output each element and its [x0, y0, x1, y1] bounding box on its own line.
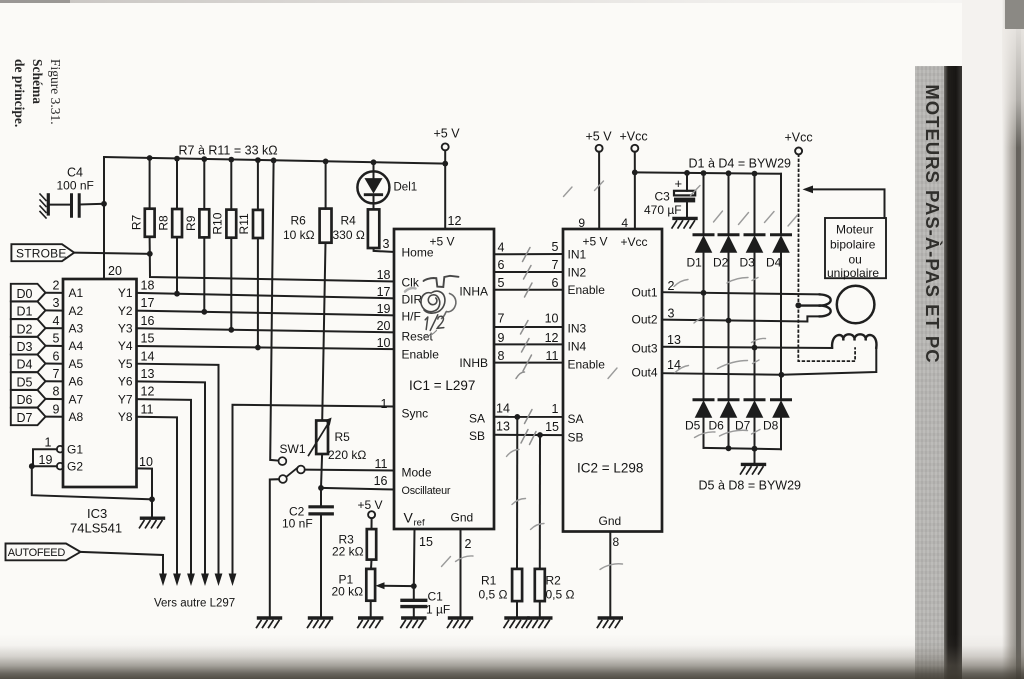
wire Out1	[662, 279, 820, 294]
pencil marks near diodes and outputs	[442, 181, 798, 570]
svg-text:17: 17	[141, 296, 155, 310]
wire bus to ground	[754, 449, 756, 465]
diode D8	[763, 400, 791, 449]
svg-text:R4: R4	[341, 214, 357, 228]
svg-text:Moteur: Moteur	[836, 223, 873, 237]
node junction G1/G2	[29, 463, 35, 469]
wire IC1 pin6 to IC2 IN2	[494, 258, 563, 272]
svg-text:ou: ou	[849, 253, 862, 267]
wire wiper to P1 with arrow	[376, 582, 414, 589]
svg-text:19: 19	[377, 302, 391, 316]
band title text	[916, 66, 946, 679]
capacitor C1	[402, 586, 450, 618]
IC3 left pin numbers 2-9	[53, 279, 60, 417]
svg-text:R7 à R11 = 33 kΩ: R7 à R11 = 33 kΩ	[179, 144, 278, 158]
svg-text:7: 7	[53, 367, 60, 381]
node D6 flag	[11, 390, 63, 408]
wire IC1 pin9 to IC2 IN4	[494, 331, 563, 345]
svg-text:11: 11	[546, 349, 559, 363]
node junction R8/Y1	[174, 291, 180, 297]
node D7 flag	[11, 408, 63, 426]
wire Out2	[662, 307, 820, 322]
svg-text:4: 4	[498, 241, 505, 255]
wire Vref to C1 node	[413, 529, 416, 586]
svg-text:G1: G1	[67, 443, 83, 457]
svg-text:INHA: INHA	[459, 284, 488, 298]
svg-text:D6: D6	[17, 393, 33, 407]
svg-text:+: +	[675, 176, 683, 191]
IC1 right pin texts INHA INHB SA SB	[459, 284, 488, 443]
svg-text:14: 14	[496, 402, 510, 416]
diode D1	[687, 173, 714, 399]
svg-text:R10: R10	[210, 212, 224, 234]
svg-text:A4: A4	[69, 339, 84, 353]
svg-text:19: 19	[39, 453, 53, 467]
svg-text:20: 20	[377, 319, 391, 333]
svg-text:A7: A7	[69, 392, 84, 406]
svg-text:2: 2	[465, 537, 472, 551]
IC2 left pin texts	[568, 247, 606, 444]
svg-text:10: 10	[545, 312, 559, 326]
resistor R9	[184, 159, 209, 312]
svg-text:A6: A6	[69, 375, 84, 389]
svg-text:Y2: Y2	[118, 304, 133, 318]
node junction R10/Y3	[228, 327, 234, 333]
svg-text:SA: SA	[469, 411, 485, 425]
svg-text:Mode: Mode	[402, 466, 432, 480]
ground IC3	[140, 518, 164, 528]
wire +5V to SW1	[270, 160, 278, 460]
wire R5 to oscillator node	[321, 454, 322, 488]
svg-text:D8: D8	[763, 419, 779, 433]
svg-text:Y8: Y8	[118, 410, 133, 424]
node junction R11/Y4	[255, 345, 261, 351]
node junction R5/C2/Osc	[318, 485, 324, 491]
potentiometer P1	[332, 560, 376, 618]
IC3 pin texts A1-A8	[69, 286, 84, 424]
svg-text:Oscillateur: Oscillateur	[402, 485, 451, 497]
ground C2	[308, 618, 332, 628]
ground C4	[40, 194, 48, 218]
svg-text:ref: ref	[414, 518, 425, 529]
motor M circle	[837, 286, 875, 324]
svg-text:8: 8	[498, 349, 505, 363]
svg-text:R7: R7	[129, 215, 143, 231]
bottom scan shadow gradient	[0, 634, 1024, 679]
figure caption (rotated serif text)	[0, 61, 76, 191]
node STROBE flag	[11, 244, 74, 261]
svg-text:D5 à D8 = BYW29: D5 à D8 = BYW29	[699, 479, 802, 493]
svg-text:Enable: Enable	[402, 347, 440, 361]
black binding stripe	[944, 66, 962, 679]
svg-text:D3: D3	[740, 256, 756, 270]
resistor R3	[332, 518, 376, 559]
svg-text:Y1: Y1	[118, 286, 133, 300]
transistor-bridge IC2 L298 box	[563, 229, 662, 532]
svg-text:6: 6	[53, 349, 60, 363]
svg-text:Y7: Y7	[118, 392, 133, 406]
IC1 left pin texts	[402, 246, 451, 498]
svg-text:220 kΩ: 220 kΩ	[328, 448, 366, 462]
svg-text:D4: D4	[17, 358, 33, 372]
switch SW1	[279, 442, 306, 483]
svg-text:9: 9	[498, 331, 505, 345]
node junction Vref/C1/P1	[411, 583, 417, 589]
svg-text:Out2: Out2	[631, 313, 657, 327]
arrows Vers autre L297	[154, 574, 236, 610]
wire Y4 to Enable	[137, 346, 395, 349]
svg-text:Del1: Del1	[394, 182, 418, 194]
svg-text:470 µF: 470 µF	[644, 203, 682, 217]
svg-text:18: 18	[141, 279, 155, 293]
svg-text:bipolaire: bipolaire	[830, 238, 876, 252]
svg-text:R9: R9	[184, 215, 198, 231]
inductor coil phase A	[801, 294, 831, 316]
inductor coil phase B	[832, 334, 876, 347]
svg-text:C1: C1	[428, 590, 444, 604]
svg-text:0,5 Ω: 0,5 Ω	[479, 588, 508, 602]
svg-text:3: 3	[383, 237, 390, 251]
svg-text:+5 V: +5 V	[434, 127, 461, 141]
svg-text:H/F: H/F	[402, 309, 421, 323]
node AUTOFEED flag	[6, 544, 81, 561]
node D5 flag	[11, 372, 63, 390]
svg-text:14: 14	[141, 349, 155, 363]
svg-text:6: 6	[498, 258, 505, 272]
svg-text:D2: D2	[713, 256, 729, 270]
svg-text:13: 13	[496, 419, 510, 433]
arrow box to +Vcc line	[803, 186, 885, 219]
svg-text:IN2: IN2	[568, 265, 587, 279]
svg-text:Gnd: Gnd	[451, 511, 474, 525]
svg-text:V: V	[404, 510, 414, 526]
resistor R11	[237, 160, 263, 347]
node C4 junction	[101, 201, 107, 207]
IC2 top pin texts	[578, 216, 647, 549]
pin G1 bubble	[45, 436, 84, 457]
node +Vcc terminal motor	[785, 131, 813, 155]
IC1 left pin numbers	[374, 237, 391, 488]
svg-text:1: 1	[552, 402, 559, 416]
wire G1 G2 tie	[32, 449, 152, 499]
wire Y8 down	[137, 417, 178, 575]
wire Y1 to DIR	[137, 293, 395, 298]
svg-text:Enable: Enable	[568, 283, 606, 297]
node junction rail/D2	[726, 170, 732, 176]
right page edge	[962, 0, 1024, 679]
svg-text:16: 16	[141, 314, 155, 328]
ground R1	[504, 618, 528, 628]
node junction Out4/D4	[779, 372, 785, 378]
wire INHA to IC2 Enable	[494, 276, 563, 290]
svg-text:D5: D5	[685, 419, 701, 433]
ground IC2	[597, 618, 621, 628]
IC3 pin texts Y1-Y8	[118, 286, 133, 424]
svg-text:INHB: INHB	[459, 356, 488, 370]
ground SW1	[257, 618, 281, 628]
wire +Vcc diode rail	[635, 172, 781, 173]
svg-text:+5 V: +5 V	[586, 130, 613, 144]
wire SA	[494, 402, 563, 417]
label R7 à R11 value	[179, 144, 278, 158]
svg-text:18: 18	[377, 268, 391, 282]
wire STROBE to R7 junction	[74, 253, 150, 254]
svg-text:10: 10	[139, 455, 153, 469]
wire Sync down	[233, 405, 395, 575]
svg-text:7: 7	[498, 312, 505, 326]
svg-text:SW1: SW1	[280, 442, 306, 456]
resistor R8	[157, 159, 183, 294]
svg-text:11: 11	[141, 402, 154, 416]
svg-text:9: 9	[53, 402, 60, 416]
svg-text:2: 2	[668, 279, 675, 293]
svg-text:6: 6	[552, 276, 559, 290]
svg-text:8: 8	[53, 385, 60, 399]
svg-text:10 nF: 10 nF	[282, 517, 313, 531]
svg-text:Y5: Y5	[118, 357, 133, 371]
wire Out4	[662, 348, 876, 375]
svg-text:A3: A3	[69, 322, 84, 336]
svg-text:9: 9	[578, 216, 585, 230]
svg-text:10: 10	[377, 336, 391, 350]
node junction SA/R1	[514, 414, 520, 420]
svg-text:12: 12	[141, 385, 155, 399]
ground R2	[527, 618, 551, 628]
svg-text:10 kΩ: 10 kΩ	[283, 228, 315, 242]
svg-text:DIR: DIR	[402, 292, 423, 306]
svg-text:5: 5	[498, 276, 505, 290]
node D0 flag	[11, 284, 63, 302]
svg-text:IN3: IN3	[568, 322, 587, 336]
svg-text:D3: D3	[17, 340, 33, 354]
svg-text:17: 17	[377, 285, 391, 299]
svg-text:D5: D5	[17, 375, 33, 389]
wire Mode	[305, 469, 394, 472]
svg-text:Out4: Out4	[631, 366, 657, 380]
svg-text:+5 V: +5 V	[358, 498, 383, 512]
diode D2	[713, 173, 738, 398]
node junction bus D7	[752, 446, 758, 452]
svg-text:13: 13	[667, 333, 681, 347]
svg-text:A2: A2	[69, 304, 84, 318]
wire INHB to IC2 Enable	[494, 349, 563, 363]
wire junction down to Clk run	[150, 254, 394, 282]
node junction pin10/G	[149, 496, 155, 502]
wire Out3	[662, 333, 832, 348]
diode D7	[735, 400, 764, 449]
wire IC3 pin 10 to ground	[137, 455, 153, 518]
svg-text:8: 8	[613, 535, 620, 549]
svg-text:Gnd: Gnd	[599, 514, 622, 528]
svg-text:5: 5	[552, 240, 559, 254]
node junction rail/D3	[752, 171, 758, 177]
svg-text:+Vcc: +Vcc	[785, 131, 813, 145]
node junction C3	[684, 170, 690, 176]
node junction +Vcc rail	[632, 170, 638, 176]
svg-text:Out3: Out3	[631, 341, 657, 355]
wire IC1 pin4 to IC2 IN1	[494, 240, 563, 255]
svg-text:G2: G2	[67, 460, 83, 474]
svg-text:R6: R6	[291, 214, 307, 228]
svg-text:Home: Home	[402, 246, 434, 260]
svg-text:4: 4	[53, 314, 60, 328]
svg-text:0,5 Ω: 0,5 Ω	[546, 588, 575, 602]
wire Oscillateur	[321, 488, 394, 490]
wire Y6 down	[137, 381, 206, 575]
svg-text:3: 3	[53, 296, 60, 310]
ground IC1	[448, 618, 472, 628]
node junction STROBE/R7	[147, 251, 153, 257]
svg-text:11: 11	[375, 457, 388, 471]
wire IC2 Gnd pin 8	[609, 532, 611, 619]
svg-text:1: 1	[381, 397, 388, 411]
svg-text:A8: A8	[69, 410, 84, 424]
resistor R2	[535, 435, 575, 618]
svg-text:IC1 = L297: IC1 = L297	[409, 378, 475, 393]
IC2 right pin texts Out1-Out4	[631, 286, 657, 380]
wire +5V to IC2 pin 9	[598, 152, 600, 229]
resistor R10	[210, 160, 236, 330]
svg-text:SB: SB	[568, 430, 584, 444]
svg-text:12: 12	[448, 214, 462, 228]
scanner top edge smudge	[0, 0, 1024, 3]
node junction R9/Y2	[201, 309, 207, 315]
svg-text:22 kΩ: 22 kΩ	[332, 545, 364, 559]
resistor R4	[333, 209, 395, 252]
wire AUTOFEED down	[81, 552, 164, 575]
wire +Vcc to IC2 pin 4	[634, 152, 636, 229]
diode D4	[766, 174, 791, 399]
svg-text:Y3: Y3	[118, 322, 133, 336]
wire IC1 pin7 to IC2 IN3	[494, 312, 563, 328]
svg-text:4: 4	[621, 216, 628, 230]
svg-text:D7: D7	[17, 411, 33, 425]
svg-text:20: 20	[108, 264, 122, 278]
node D4 flag	[11, 355, 63, 373]
svg-text:Vers autre L297: Vers autre L297	[154, 598, 235, 610]
IC1 bottom pin texts Vref Gnd	[404, 510, 474, 552]
svg-text:1: 1	[45, 436, 52, 450]
wire SW1 to ground	[270, 479, 279, 618]
node +5V terminal R3	[358, 498, 383, 518]
svg-text:R2: R2	[546, 574, 562, 588]
svg-text:IN1: IN1	[568, 247, 587, 261]
svg-text:12: 12	[545, 331, 559, 345]
pencil scribble hand in IC1	[405, 276, 459, 337]
resistor R7	[129, 158, 154, 254]
node rail junctions	[147, 155, 448, 166]
svg-text:7: 7	[552, 258, 559, 272]
wire SB	[494, 419, 563, 435]
svg-text:+Vcc: +Vcc	[621, 235, 648, 249]
capacitor C2	[282, 488, 332, 618]
svg-text:D2: D2	[17, 322, 33, 336]
svg-text:AUTOFEED: AUTOFEED	[8, 547, 66, 559]
wire IC1 Gnd pin 2	[460, 529, 462, 618]
svg-text:100 nF: 100 nF	[57, 179, 94, 193]
svg-text:unipolaire: unipolaire	[827, 266, 879, 280]
wire D5-D8 ground bus	[704, 448, 782, 449]
node +5V terminal top	[434, 127, 461, 151]
wire Y7 down	[137, 399, 192, 575]
svg-text:A5: A5	[69, 357, 84, 371]
wire +5V to IC1 pin 12	[444, 150, 446, 229]
wire Y3 to Reset	[137, 328, 395, 332]
svg-text:+Vcc: +Vcc	[620, 130, 648, 144]
LED Del1	[357, 162, 417, 209]
capacitor C3 electrolytic	[644, 173, 695, 219]
svg-text:20 kΩ: 20 kΩ	[332, 585, 364, 599]
svg-text:D4: D4	[766, 256, 782, 270]
node D1 flag	[11, 302, 63, 320]
svg-text:13: 13	[141, 367, 155, 381]
node junction Out2/D2	[726, 318, 732, 324]
svg-text:5: 5	[53, 332, 60, 346]
svg-text:STROBE: STROBE	[16, 246, 67, 260]
svg-text:A1: A1	[69, 286, 84, 300]
svg-text:Enable: Enable	[568, 358, 606, 372]
svg-text:74LS541: 74LS541	[70, 521, 122, 536]
svg-text:15: 15	[419, 535, 433, 549]
svg-text:15: 15	[141, 332, 155, 346]
wire Y2 to H/F	[137, 311, 395, 316]
IC3 74LS541 box	[63, 264, 137, 536]
node junction rail/D1	[701, 170, 707, 176]
svg-text:D0: D0	[17, 287, 33, 301]
diode D3	[740, 174, 765, 399]
node D3 flag	[11, 337, 63, 355]
ground P1	[358, 618, 382, 628]
box motor caption	[825, 218, 886, 280]
svg-text:R8: R8	[157, 215, 171, 231]
svg-text:330 Ω: 330 Ω	[333, 228, 365, 242]
svg-text:D1: D1	[687, 256, 703, 270]
wire +5V rail to IC3 pin 20	[103, 157, 105, 279]
ground C1	[401, 618, 425, 628]
diode D5	[685, 400, 713, 448]
svg-text:IC2 = L298: IC2 = L298	[577, 461, 643, 476]
node junction Out1/D1	[701, 290, 707, 296]
node junction bus D6	[726, 445, 732, 451]
svg-text:R5: R5	[335, 430, 351, 444]
node junction SB/R2	[537, 432, 543, 438]
svg-text:D1 à D4 = BYW29: D1 à D4 = BYW29	[689, 157, 792, 171]
svg-text:D6: D6	[709, 419, 725, 433]
resistor R1	[479, 417, 523, 618]
svg-text:16: 16	[374, 474, 388, 488]
svg-text:IC3: IC3	[87, 506, 107, 521]
node junction Out3/D3	[752, 345, 758, 351]
node +Vcc terminal IC2	[620, 130, 648, 152]
wire +5V top rail	[104, 157, 445, 164]
svg-text:Y6: Y6	[118, 375, 133, 389]
right margin gray band	[915, 66, 946, 679]
label D1 à D4 = BYW29	[689, 157, 792, 171]
pin G2 bubble	[39, 453, 84, 474]
svg-text:IN4: IN4	[568, 340, 587, 354]
svg-text:C3: C3	[655, 190, 671, 204]
ground C3	[672, 218, 696, 228]
capacitor C4	[50, 166, 104, 217]
node junction coil A tap	[795, 302, 801, 308]
diode D6	[709, 400, 739, 449]
svg-text:+5 V: +5 V	[583, 235, 608, 249]
svg-text:SB: SB	[469, 429, 485, 443]
node D2 flag	[11, 319, 63, 337]
svg-text:3: 3	[668, 307, 675, 321]
resistor R6	[283, 161, 332, 420]
svg-text:Out1: Out1	[631, 286, 657, 300]
